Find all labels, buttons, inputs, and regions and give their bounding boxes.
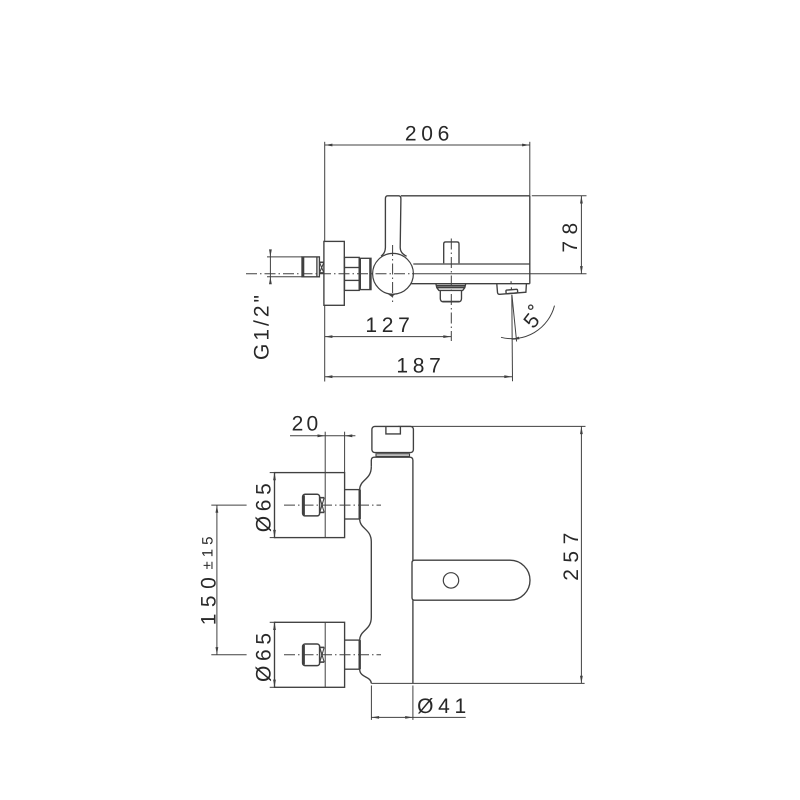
d65 top ext upper: [270, 472, 276, 474]
svg-text:78: 78: [559, 216, 582, 252]
knob bottom valve thick left edge: [303, 645, 305, 665]
d41 ext right: [412, 686, 414, 720]
5 deg degree-circle: [529, 305, 533, 309]
G1/2 dimension line: [269, 251, 271, 283]
spout mid solid line + 78 bottom extension: [412, 273, 587, 275]
dim 78 arrow top: [580, 196, 583, 204]
dim 78 line: [580, 196, 582, 274]
dim d65 bottom line: [274, 622, 276, 687]
d65 top arrow up: [273, 473, 276, 481]
dim 20 line: [290, 435, 355, 437]
aerator flange thick face: [436, 285, 465, 287]
G1/2 connector claw X: [320, 262, 324, 273]
G1/2 connector thick left cap: [302, 257, 305, 277]
dim 206 arrow right: [522, 144, 530, 147]
svg-text:G1/2": G1/2": [250, 292, 273, 360]
svg-text:Ø65: Ø65: [253, 628, 276, 682]
nut flat line lower: [345, 279, 360, 281]
wall plate: [324, 241, 344, 305]
knob top valve: [303, 494, 320, 516]
body bottom line: [413, 263, 530, 265]
dim 187 arrow left: [325, 375, 333, 378]
dim d41 line: [371, 716, 465, 718]
dim 78 arrow bottom: [580, 266, 583, 274]
mounting nut: [345, 257, 360, 290]
G1/2 connector ring line: [316, 257, 318, 277]
boss top valve bottom line: [345, 518, 360, 520]
boss bottom valve top line: [345, 639, 360, 641]
centerline top valve: [284, 504, 381, 506]
knob bottom valve claw X: [320, 647, 324, 662]
dim 257 line: [580, 426, 582, 683]
centerline bottom valve: [284, 654, 381, 656]
escutcheon top inner line + 20-dim ext1: [324, 432, 326, 538]
knob top valve claw ticks: [320, 497, 324, 499]
svg-text:Ø65: Ø65: [253, 479, 276, 533]
body right edge lower: [412, 600, 414, 683]
G1/2 connector claw ticks: [320, 261, 324, 263]
svg-text:Ø41: Ø41: [417, 695, 471, 718]
dim 257 arrow top: [580, 426, 583, 434]
dim 150 arrow down: [216, 647, 219, 655]
G1/2 connector body: [302, 257, 319, 277]
outlet nozzle: [506, 289, 518, 293]
knob bottom valve claw ticks: [320, 646, 324, 648]
main horizontal centerline (dash-dot): [246, 273, 412, 275]
dim 257 arrow bottom: [580, 676, 583, 684]
boss bottom valve bottom line: [345, 668, 360, 670]
valve body circle: [373, 253, 414, 294]
5 deg tilted line: [512, 295, 517, 342]
body top edge: [371, 457, 413, 560]
dim 150 ext top: [211, 504, 246, 506]
svg-text:20: 20: [292, 412, 322, 435]
spout outlet: [497, 284, 527, 294]
d65 bottom arrow up: [273, 622, 276, 630]
d41 ext left: [370, 686, 372, 720]
aerator tip bottom thick: [443, 301, 460, 303]
svg-text:206: 206: [405, 123, 454, 146]
dim 20 arrow right: [345, 434, 353, 437]
d65 bottom arrow down: [273, 680, 276, 688]
aerator flange line mid: [437, 287, 465, 289]
body top line: [401, 195, 530, 197]
sleeve ring: [359, 258, 371, 289]
body bottom + 257 ext bottom: [371, 682, 584, 684]
G1/2 arrow bottom: [269, 277, 272, 285]
5 deg vertical line: [511, 295, 514, 382]
dim 127 arrow left: [325, 335, 333, 338]
d65 bottom ext lower: [270, 686, 276, 688]
dim 187/127 ext left: [324, 305, 326, 381]
outlet centerline tick lower: [510, 287, 512, 290]
knob top valve thick left edge: [303, 495, 305, 515]
d41 arrow right: [405, 716, 413, 719]
dim 127 line: [325, 336, 451, 338]
dim 257 ext top: [398, 425, 586, 427]
handle screw hole: [443, 573, 458, 588]
dim 20 arrow left: [318, 434, 326, 437]
top cap: [372, 426, 414, 452]
svg-text:257: 257: [560, 526, 583, 581]
spout bottom line: [411, 283, 530, 285]
circle vertical centerline: [392, 245, 394, 302]
G1/2 arrow top: [269, 249, 272, 257]
handle lever: [381, 196, 407, 256]
dim 206 ext left: [324, 142, 326, 242]
escutcheon bottom inner line: [324, 622, 326, 687]
dim 187 arrow right: [504, 375, 512, 378]
dim d65 top line: [274, 473, 276, 538]
G1/2 dimension extension bottom: [267, 276, 302, 278]
dim 150 arrow up: [216, 505, 219, 513]
svg-text:150: 150: [198, 571, 221, 626]
handle bar front: [412, 560, 530, 600]
separator collar: [376, 454, 410, 456]
d41 arrow left: [371, 716, 379, 719]
cap notch: [386, 426, 401, 434]
dim 206 line: [325, 144, 530, 146]
circle bottom wedge: [388, 294, 396, 297]
boss top valve thick edge: [359, 490, 361, 519]
d65 top arrow down: [273, 530, 276, 538]
knob bottom valve: [303, 644, 320, 666]
d65 bottom ext upper: [270, 621, 276, 623]
dim 206 arrow left: [325, 144, 333, 147]
dim 187 line: [325, 376, 512, 378]
sleeve thick edges: [359, 258, 361, 289]
G1/2 dimension extension top: [267, 256, 302, 258]
dim 206 ext right: [529, 142, 531, 196]
dim 78 ext top: [532, 195, 587, 197]
boss top valve top line: [345, 489, 360, 491]
dim 150 line: [216, 505, 218, 655]
boss bottom valve thick edge: [359, 640, 361, 669]
body left outline with bosses: [360, 467, 372, 684]
escutcheon top valve: [275, 473, 345, 538]
svg-text:187: 187: [396, 354, 445, 377]
5 deg arc arrow: [511, 337, 520, 340]
dim 150 ext bottom: [211, 654, 246, 656]
escutcheon bottom valve: [275, 622, 345, 687]
svg-text:127: 127: [365, 314, 414, 337]
diverter/aerator centerline: [450, 239, 452, 342]
20-dim ext2: [344, 432, 346, 473]
dim 127 arrow right: [443, 335, 451, 338]
body right edge: [529, 196, 531, 284]
d65 top ext lower: [270, 537, 276, 539]
svg-text:±15: ±15: [200, 533, 217, 570]
aerator tip: [440, 290, 461, 301]
aerator flange: [436, 284, 466, 291]
nut flat line upper: [345, 267, 360, 269]
knob top valve claw X: [320, 498, 324, 513]
outlet centerline tick upper: [510, 281, 512, 284]
diverter knob: [444, 242, 459, 263]
5 deg arc: [501, 306, 555, 339]
